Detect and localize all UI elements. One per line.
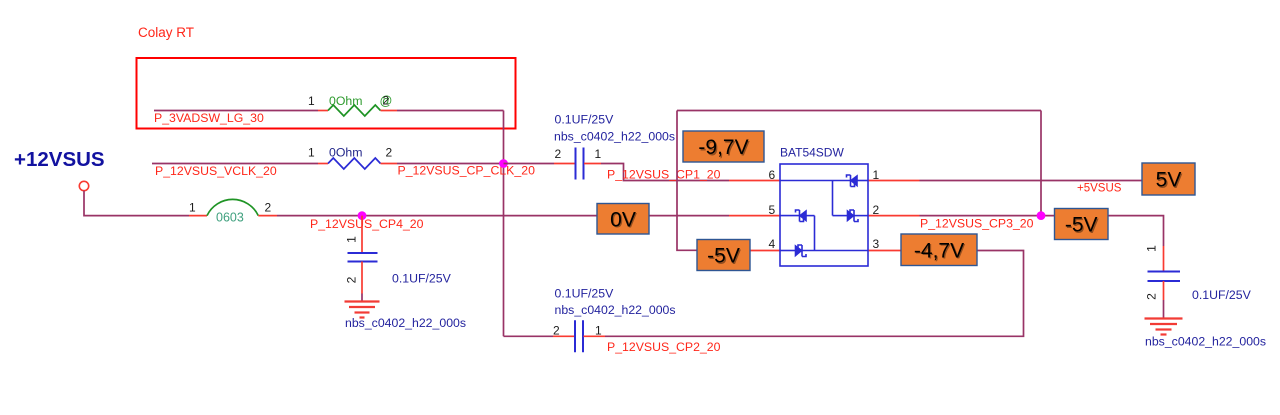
ferrite L? pin1 stub	[189, 215, 207, 217]
wire CP1 row from junction	[504, 163, 555, 165]
svg-text:0Ohm: 0Ohm	[329, 146, 363, 160]
wire P_3VADSW right segment	[397, 110, 504, 112]
svg-text:1: 1	[1145, 245, 1159, 252]
capacitor C_CP2 pin2 stub	[553, 335, 575, 337]
wire P_12VSUS_CP_CLK_20	[397, 163, 504, 165]
resistor pin2 stub	[381, 110, 398, 112]
pin 1 stub	[868, 180, 920, 182]
wire +5VSUS (pin1 to 5V box)	[920, 180, 1143, 182]
capacitor C_CP4 pin2 wire	[361, 262, 363, 294]
svg-text:0.1UF/25V: 0.1UF/25V	[555, 113, 615, 127]
svg-text:2: 2	[265, 200, 272, 214]
op IC U? BAT54SDW body	[780, 164, 868, 266]
svg-text:P_3VADSW_LG_30: P_3VADSW_LG_30	[154, 111, 264, 125]
wire vertical x=503 down to CP2 row	[503, 111, 505, 337]
pin 6 stub	[729, 180, 780, 182]
svg-text:0Ohm: 0Ohm	[329, 94, 363, 108]
wire P_12VSUS_CP3_20 (pin2 to junction and right cap)	[920, 215, 1109, 217]
svg-text:0603: 0603	[216, 211, 244, 225]
pin 3 stub	[868, 250, 901, 252]
svg-text:2: 2	[383, 94, 390, 108]
resistor 0Ohm (blue) pin1 stub	[318, 163, 328, 165]
svg-text:-9,7V: -9,7V	[698, 136, 748, 159]
svg-text:6: 6	[769, 168, 776, 182]
capacitor C_CP1 plates	[576, 148, 584, 180]
ground under C_CP3	[1145, 319, 1183, 335]
svg-text:0.1UF/25V: 0.1UF/25V	[392, 272, 452, 286]
svg-text:-5V: -5V	[707, 245, 740, 268]
svg-text:1: 1	[345, 236, 359, 243]
wire P_12VSUS_VCLK_20 left segment	[152, 163, 318, 165]
svg-text:5: 5	[769, 203, 776, 217]
wire loop left vertical	[677, 111, 729, 251]
svg-text:2: 2	[386, 146, 393, 160]
wire stub to ground (C_CP3)	[1163, 300, 1165, 319]
pin 2 stub	[868, 215, 920, 217]
voltage box 0V	[597, 204, 649, 235]
svg-text:1: 1	[595, 147, 602, 161]
resistor R? pin1 stub	[318, 110, 328, 112]
wire from port down and right	[84, 191, 189, 216]
junction node CP3	[1037, 211, 1046, 220]
internal vertical V2 (D3 to pin3 row)	[814, 216, 816, 251]
capacitor C_CP4 pin1 wire	[361, 216, 363, 253]
voltage box -5V (right)	[1055, 209, 1109, 240]
Colay RT box outline	[137, 58, 516, 129]
voltage box -9,7V	[683, 131, 764, 162]
capacitor C_CP1 pin1 stub	[584, 163, 601, 165]
capacitor C_CP2 plates	[575, 320, 583, 352]
capacitor C_CP3 pin2 wire	[1163, 281, 1165, 300]
capacitor C_CP1 pin2 stub	[554, 163, 575, 165]
resistor 0Ohm (green, Colay box)	[328, 105, 381, 116]
wire CP2 to pin3 riser	[605, 251, 1024, 337]
junction node CLK/CP1	[499, 159, 508, 168]
wire loop pin4/pin2 top	[677, 110, 1041, 112]
resistor 0Ohm (blue, VCLK)	[328, 158, 381, 169]
diode D4 (pin4 row)	[780, 245, 868, 257]
svg-text:-5V: -5V	[1065, 214, 1098, 237]
svg-text:2: 2	[345, 276, 359, 283]
voltage box -5V (left)	[697, 240, 750, 271]
pin 5 stub	[729, 215, 780, 217]
diode D1 (pin1-pin6 row)	[780, 175, 868, 187]
wire CP2 bottom row	[504, 335, 554, 337]
svg-text:+5VSUS: +5VSUS	[1077, 182, 1122, 194]
svg-text:2: 2	[873, 203, 880, 217]
capacitor C_CP3 pin1 wire	[1163, 246, 1165, 272]
svg-text:1: 1	[595, 323, 602, 337]
svg-text:0V: 0V	[610, 208, 636, 231]
svg-text:P_12VSUS_CP4_20: P_12VSUS_CP4_20	[310, 217, 424, 231]
port circle +12VSUS	[79, 181, 88, 190]
svg-text:3: 3	[873, 237, 880, 251]
voltage box -4,7V	[901, 234, 977, 266]
svg-text:P_12VSUS_CP_CLK_20: P_12VSUS_CP_CLK_20	[398, 164, 536, 178]
svg-text:P_12VSUS_CP2_20: P_12VSUS_CP2_20	[607, 340, 721, 354]
wire P_12VSUS_CP4_20 to pin5	[277, 215, 729, 217]
svg-text:P_12VSUS_CP3_20: P_12VSUS_CP3_20	[920, 216, 1034, 230]
capacitor C_CP4 plates	[348, 253, 378, 262]
wire CP1 step to pin6	[601, 164, 729, 181]
svg-text:1: 1	[308, 146, 315, 160]
resistor pin2 stub	[381, 163, 398, 165]
svg-text:P_12VSUS_CP1_20: P_12VSUS_CP1_20	[607, 167, 721, 181]
svg-text:1: 1	[308, 94, 315, 108]
capacitor C_CP3 plates	[1148, 272, 1181, 282]
svg-text:5V: 5V	[1156, 169, 1182, 192]
svg-text:0.1UF/25V: 0.1UF/25V	[555, 286, 615, 300]
ground under C_CP4	[345, 302, 380, 318]
diode D2 (pin2 row right)	[833, 210, 869, 222]
svg-text:-4,7V: -4,7V	[914, 239, 964, 262]
svg-text:P_12VSUS_VCLK_20: P_12VSUS_VCLK_20	[155, 164, 277, 178]
internal vertical V1 (pin6 to D2)	[832, 181, 834, 216]
pin 4 stub	[729, 250, 780, 252]
junction node CP4	[358, 211, 367, 220]
svg-text:BAT54SDW: BAT54SDW	[780, 145, 844, 159]
svg-text:nbs_c0402_h22_000s: nbs_c0402_h22_000s	[555, 303, 676, 317]
svg-text:2: 2	[553, 323, 560, 337]
wire stub to ground (C_CP4)	[361, 294, 363, 302]
svg-text:nbs_c0402_h22_000s: nbs_c0402_h22_000s	[554, 130, 675, 144]
svg-text:Colay RT: Colay RT	[138, 25, 194, 40]
capacitor C_CP2 pin1 stub	[584, 335, 606, 337]
svg-text:0.1UF/25V: 0.1UF/25V	[1192, 288, 1252, 302]
wire P_3VADSW_LG_30 left segment	[154, 110, 318, 112]
voltage box 5V	[1142, 163, 1195, 195]
svg-text:nbs_c0402_h22_000s: nbs_c0402_h22_000s	[1145, 334, 1266, 348]
svg-text:nbs_c0402_h22_000s: nbs_c0402_h22_000s	[345, 316, 466, 330]
wire CP3 to right capacitor	[1108, 216, 1164, 246]
svg-text:1: 1	[189, 200, 196, 214]
diode D3 (pin5 row)	[780, 210, 815, 222]
wire loop right vertical	[1040, 111, 1042, 216]
svg-text:4: 4	[769, 237, 776, 251]
svg-text:2: 2	[555, 147, 562, 161]
svg-text:+12VSUS: +12VSUS	[14, 148, 105, 171]
ferrite bead 0603 arc	[207, 199, 258, 215]
svg-text:1: 1	[873, 168, 880, 182]
ferrite pin2 stub	[258, 215, 277, 217]
svg-text:2: 2	[1145, 293, 1159, 300]
